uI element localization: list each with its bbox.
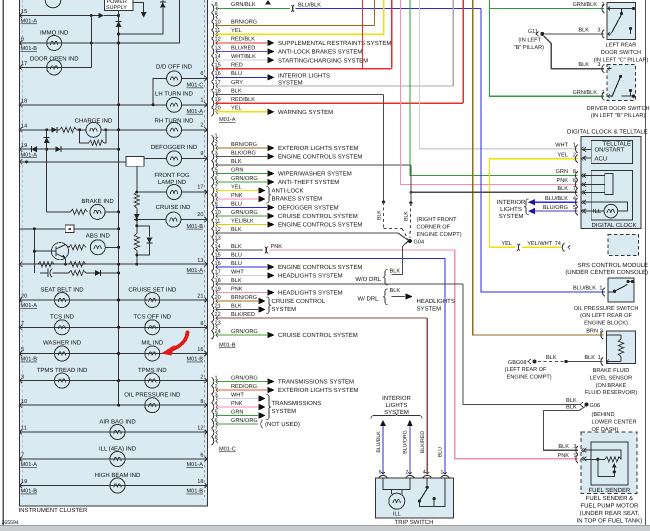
svg-text:LH TURN IND: LH TURN IND — [155, 90, 194, 97]
pin 14 left edge — [19, 127, 22, 132]
pin BLK 7 — [576, 188, 578, 196]
svg-text:YEL: YEL — [231, 184, 242, 190]
wire BLU/ORG interior lights arrow — [534, 210, 578, 212]
system arrow — [267, 378, 274, 385]
wire D/D OFF to right edge — [181, 77, 207, 79]
wire pin18 row / LH TURN — [19, 104, 167, 106]
svg-text:PNK: PNK — [231, 193, 243, 199]
svg-text:GRN: GRN — [231, 409, 243, 415]
pin 9 right edge — [205, 156, 208, 161]
wire BLK — [216, 249, 264, 251]
connector pin 15 — [212, 65, 214, 73]
svg-text:SYSTEM: SYSTEM — [499, 213, 524, 220]
ground G11 — [536, 32, 539, 37]
diode left-pointing pin19 row — [31, 146, 37, 152]
junction (118.6,34) — [117, 33, 120, 36]
small component box row 228.8 — [19, 228, 65, 230]
lamp MIL IND — [145, 346, 160, 361]
wire RED/BLK — [216, 102, 464, 104]
svg-text:SUPPLEMENTAL RESTRAINTS SYSTEM: SUPPLEMENTAL RESTRAINTS SYSTEM — [278, 40, 391, 47]
pin 15 (M01-A) left edge — [19, 13, 22, 18]
wire BLU/BLK pin8 continuation — [295, 7, 481, 9]
telltale sub-box — [591, 141, 632, 164]
svg-text:ANTI-LOCK BRAKES SYSTEM: ANTI-LOCK BRAKES SYSTEM — [278, 49, 362, 56]
pin 19 (M01-A) left edge — [19, 147, 22, 152]
svg-text:23: 23 — [215, 320, 221, 326]
pin 2 right edge — [205, 127, 208, 132]
pin BLU/BLK 4 — [576, 198, 578, 206]
wire WHT — [216, 275, 267, 277]
wire GRY vertical to top — [452, 0, 454, 86]
svg-text:GRN/BLK: GRN/BLK — [231, 1, 256, 8]
oil pressure switch box — [608, 278, 634, 302]
driver switch blade — [612, 76, 621, 97]
svg-text:BLU: BLU — [438, 447, 444, 457]
wire PNK pin14 continuation to fuel sender — [269, 250, 578, 459]
svg-text:7: 7 — [573, 186, 576, 192]
brace cruise control — [267, 297, 272, 314]
wire CRUISE to right edge — [181, 219, 208, 221]
connector pin 2 — [212, 144, 214, 152]
svg-text:9: 9 — [215, 201, 218, 207]
svg-text:(UNDER CENTER CONSOLE): (UNDER CENTER CONSOLE) — [565, 269, 648, 276]
svg-text:6: 6 — [573, 178, 576, 184]
svg-text:18: 18 — [197, 479, 203, 485]
wire BLK pin18(M01-B) to G06 — [463, 284, 580, 405]
svg-text:1: 1 — [215, 133, 218, 139]
wire charge row to bus — [101, 129, 119, 131]
svg-text:18: 18 — [215, 88, 221, 94]
branch arrow from power supply box — [133, 3, 144, 13]
svg-text:BLK: BLK — [231, 227, 242, 233]
left rear switch pins — [602, 4, 604, 12]
lamp TPMS TREAD IND — [55, 373, 70, 388]
splice pin14 — [265, 247, 268, 254]
svg-text:YEL: YEL — [501, 241, 512, 247]
wire FRONT FOG to right edge — [181, 191, 207, 193]
connector pin 12 — [212, 229, 214, 237]
lamp ILL (trip switch) — [389, 493, 405, 509]
fuel sender resistor — [605, 457, 621, 462]
connector pin 8 — [212, 195, 214, 203]
wire BLK G06 to fuel sender — [543, 407, 585, 451]
svg-text:M01-B: M01-B — [21, 489, 38, 495]
svg-text:INTERIOR: INTERIOR — [497, 199, 526, 206]
svg-text:3: 3 — [215, 150, 218, 156]
svg-text:BLU: BLU — [231, 261, 242, 267]
svg-text:CHARGE IND: CHARGE IND — [75, 117, 113, 124]
svg-text:18: 18 — [215, 278, 221, 284]
wire BLU/BLK interior lights arrow — [534, 201, 578, 203]
wire BLK/ORG — [216, 156, 267, 158]
svg-text:HEADLIGHTS SYSTEM: HEADLIGHTS SYSTEM — [278, 273, 343, 280]
dashed BLK pin4 to G04 — [409, 203, 412, 238]
wire FRONT FOG row — [137, 191, 167, 193]
wire YEL/BLK — [216, 224, 267, 226]
svg-text:GRN/BLK: GRN/BLK — [572, 89, 597, 96]
transistor collector to resistor — [66, 245, 69, 248]
wire DEFOGGER to right edge — [181, 157, 207, 159]
vertical from pin15 junction down — [90, 16, 92, 68]
wire BLK — [216, 309, 259, 311]
svg-text:LEFT REAR: LEFT REAR — [606, 43, 637, 49]
svg-text:6: 6 — [215, 176, 218, 182]
svg-text:11: 11 — [21, 426, 27, 432]
svg-text:GRN/ORG: GRN/ORG — [231, 209, 258, 216]
svg-text:4: 4 — [215, 401, 218, 407]
svg-text:G06: G06 — [590, 403, 601, 409]
svg-text:WHT: WHT — [231, 392, 244, 398]
fuel sender inner box — [591, 442, 628, 485]
svg-text:TRIP SWITCH: TRIP SWITCH — [395, 519, 434, 526]
svg-text:W/ DRL: W/ DRL — [358, 296, 380, 303]
SRS pin bracket — [562, 243, 564, 251]
lamp TCS OFF IND — [145, 320, 160, 335]
svg-text:BLK: BLK — [566, 405, 577, 411]
wire BLU — [216, 266, 267, 268]
junction (46.7,149.2) — [45, 148, 48, 151]
svg-text:8: 8 — [215, 2, 218, 8]
svg-text:(RIGHT FRONT: (RIGHT FRONT — [417, 216, 458, 223]
wire pin19 row — [19, 148, 118, 150]
wire BLU/RED — [216, 51, 267, 53]
junction (91.3,15.5) — [90, 14, 93, 17]
connector pin 13 — [212, 237, 214, 245]
system arrow — [267, 145, 274, 152]
svg-text:17: 17 — [215, 80, 221, 86]
system arrow — [267, 289, 274, 296]
svg-text:TRANSMISSIONS: TRANSMISSIONS — [272, 400, 322, 407]
svg-text:M01-B: M01-B — [219, 343, 236, 349]
svg-text:BLU/ORG: BLU/ORG — [403, 430, 409, 453]
svg-text:3: 3 — [215, 392, 218, 398]
svg-text:YEL/WHT: YEL/WHT — [527, 240, 552, 247]
svg-text:ENGINE CONTROLS SYSTEM: ENGINE CONTROLS SYSTEM — [278, 154, 362, 161]
svg-text:(NOT USED): (NOT USED) — [265, 421, 300, 428]
telltale ON/START arrow — [583, 148, 591, 150]
lamp ILL (4EA) IND — [110, 452, 125, 467]
connector pin 12 — [212, 39, 214, 47]
svg-text:7: 7 — [21, 321, 24, 327]
svg-text:4: 4 — [215, 159, 218, 165]
wire BLU — [216, 258, 445, 260]
svg-text:BLU/ORG: BLU/ORG — [543, 204, 568, 211]
svg-text:SRS CONTROL MODULE: SRS CONTROL MODULE — [578, 262, 648, 269]
wire GRN/ORG — [216, 334, 267, 336]
svg-text:CRUISE CONTROL: CRUISE CONTROL — [272, 298, 326, 305]
svg-text:CORNER OF: CORNER OF — [417, 224, 451, 230]
lamp BRAKE IND — [90, 204, 105, 219]
svg-text:12: 12 — [197, 426, 203, 432]
svg-text:7: 7 — [215, 184, 218, 190]
pin 6 (M01-C) right edge — [205, 76, 208, 81]
wire pin15 row — [19, 15, 98, 17]
svg-text:20: 20 — [215, 106, 221, 112]
connector pin 18 — [212, 280, 214, 288]
wire GRN — [216, 173, 267, 175]
lamp CRUISE SET IND — [145, 293, 160, 308]
svg-text:CRUISE IND: CRUISE IND — [156, 204, 191, 211]
row tcs — [19, 326, 207, 328]
brake fluid sensor resistor — [606, 334, 621, 336]
svg-text:SYSTEM: SYSTEM — [272, 306, 297, 313]
svg-text:2: 2 — [215, 142, 218, 148]
svg-text:5: 5 — [573, 205, 576, 211]
svg-text:22: 22 — [215, 312, 221, 318]
svg-text:1: 1 — [200, 97, 203, 103]
wire PNK — [216, 198, 259, 200]
system arrow — [267, 109, 274, 116]
svg-text:BLK/RED: BLK/RED — [231, 311, 255, 318]
svg-text:EXTERIOR LIGHTS SYSTEM: EXTERIOR LIGHTS SYSTEM — [278, 387, 358, 394]
resistor ABS row — [69, 245, 86, 250]
wire GRY — [216, 85, 454, 87]
svg-text:ANTI-THEFT SYSTEM: ANTI-THEFT SYSTEM — [278, 179, 339, 186]
svg-text:M01-A: M01-A — [187, 462, 204, 468]
brake fluid pin1 — [601, 357, 603, 365]
driver switch pins — [602, 65, 604, 73]
digital clock box — [581, 136, 641, 228]
svg-text:HEADLIGHTS SYSTEM: HEADLIGHTS SYSTEM — [278, 290, 343, 297]
svg-text:7: 7 — [21, 453, 24, 459]
diode right pin19 row — [55, 146, 61, 152]
left rear switch blade — [612, 14, 623, 34]
wire BRAKE row from x=46.7 vertical — [47, 211, 71, 213]
svg-text:19: 19 — [215, 286, 221, 292]
svg-text:3: 3 — [597, 28, 600, 34]
connector pin 7 — [212, 428, 214, 436]
wire BLU — [216, 76, 267, 78]
row oil pressure — [19, 404, 207, 406]
svg-text:(LEFT REAR OF: (LEFT REAR OF — [505, 366, 547, 373]
connector pin 20 — [212, 108, 214, 116]
svg-text:2: 2 — [200, 374, 203, 380]
page left border — [2, 0, 4, 527]
wire GRN/ORG — [216, 215, 267, 217]
wire DOOR OPEN row — [19, 66, 91, 68]
junction cruise row — [135, 218, 138, 221]
digital clock sub-box — [591, 171, 632, 221]
svg-text:BLK: BLK — [231, 278, 242, 284]
lamp FRONT FOG LAMP IND — [167, 185, 182, 200]
wire BRN/ORG vertical to top — [374, 0, 376, 26]
connector pin 17 — [212, 82, 214, 90]
wire BRN/ORG — [216, 25, 375, 27]
svg-text:INTERIOR LIGHTS: INTERIOR LIGHTS — [278, 72, 330, 79]
svg-text:20: 20 — [21, 294, 27, 300]
svg-text:4: 4 — [573, 196, 576, 202]
trip switch top pin brackets — [379, 475, 387, 477]
svg-text:G04: G04 — [414, 240, 425, 246]
svg-text:WHT/BLK: WHT/BLK — [231, 53, 256, 60]
svg-text:DOOR SWITCH: DOOR SWITCH — [601, 50, 641, 56]
svg-text:M01-B: M01-B — [187, 357, 204, 363]
system arrow — [267, 153, 274, 160]
connector pin 20 — [212, 297, 214, 305]
wire row to x=179.6 then up — [119, 0, 180, 43]
svg-text:PNK: PNK — [231, 401, 243, 407]
svg-text:12: 12 — [215, 37, 221, 43]
svg-text:PNK: PNK — [271, 244, 283, 250]
lamp ILL (digital clock) — [583, 210, 604, 212]
wire BLK clock pin7 — [411, 191, 578, 193]
lamp AIR BAG IND — [110, 425, 125, 440]
svg-text:7: 7 — [215, 426, 218, 432]
clock display rectangle — [605, 174, 613, 195]
diode pin14 row — [51, 127, 57, 133]
svg-text:EXTERIOR LIGHTS SYSTEM: EXTERIOR LIGHTS SYSTEM — [278, 145, 358, 152]
svg-text:265594: 265594 — [2, 520, 19, 526]
connector pin 11 — [212, 30, 214, 38]
svg-text:BLK: BLK — [377, 210, 383, 220]
capacitor row 272.9 — [40, 272, 48, 274]
row washer / mil — [19, 353, 207, 355]
connector pin 5 — [212, 169, 214, 177]
svg-text:YEL: YEL — [231, 28, 242, 34]
svg-text:D/D OFF IND: D/D OFF IND — [156, 63, 193, 70]
svg-text:13: 13 — [197, 258, 203, 264]
svg-text:9: 9 — [215, 11, 218, 17]
svg-text:11: 11 — [215, 28, 221, 34]
svg-text:BLK/RED: BLK/RED — [420, 431, 426, 453]
svg-text:18: 18 — [21, 99, 27, 105]
svg-text:(IN LEFT "C" PILLAR): (IN LEFT "C" PILLAR) — [594, 56, 649, 63]
svg-text:G11: G11 — [528, 29, 538, 35]
svg-text:21: 21 — [197, 294, 203, 300]
svg-text:15: 15 — [215, 63, 221, 69]
connector pin 8 — [212, 4, 214, 12]
svg-text:GRN/ORG: GRN/ORG — [231, 175, 258, 182]
wire BLK — [216, 283, 463, 285]
connector pin 13 — [212, 47, 214, 55]
connector pin 16 — [212, 73, 214, 81]
svg-text:BLK: BLK — [231, 88, 242, 94]
wire GRN — [216, 415, 259, 417]
svg-text:BLK: BLK — [584, 355, 595, 361]
connector pin 14 — [212, 246, 214, 254]
svg-text:8: 8 — [573, 169, 576, 175]
ground GBG08 — [528, 359, 531, 364]
junction (118.6,15.5) — [117, 14, 120, 17]
svg-text:1: 1 — [598, 355, 601, 361]
connector pin 17 — [212, 271, 214, 279]
power supply box — [105, 0, 134, 11]
trip switch pin1 wire — [419, 478, 445, 507]
connector pin 11 — [212, 220, 214, 228]
svg-text:10: 10 — [215, 19, 221, 25]
diode up on bus — [116, 22, 122, 28]
svg-text:LEVEL SENSOR: LEVEL SENSOR — [590, 375, 632, 381]
transistor Q — [51, 243, 68, 260]
connector pin 9 — [212, 13, 214, 21]
svg-text:21: 21 — [215, 303, 221, 309]
wire RED — [216, 68, 392, 70]
pin 6 (M01-B) left edge — [19, 41, 22, 46]
svg-text:M01-A: M01-A — [21, 303, 38, 309]
svg-text:DEFOGGER SYSTEM: DEFOGGER SYSTEM — [278, 205, 339, 212]
diode on pin15 row — [99, 13, 105, 19]
wire relay to DEFOGGER lamp — [144, 157, 167, 159]
svg-text:BLK: BLK — [231, 159, 242, 165]
wire BLK to GBG08 — [566, 361, 603, 363]
wire BLU pin15 down to trip switch pin1 — [444, 259, 446, 475]
svg-text:BLK: BLK — [404, 211, 410, 221]
svg-text:BRN: BRN — [586, 329, 598, 335]
wire RED/ORG — [216, 389, 267, 391]
resistor BRAKE row — [70, 209, 87, 214]
connector pin 16 — [212, 263, 214, 271]
wire RH TURN to right edge — [181, 129, 207, 131]
vertical x=46.7 with diode — [46, 130, 48, 212]
svg-text:FUEL SENDER: FUEL SENDER — [589, 487, 631, 494]
svg-text:PNK: PNK — [556, 178, 568, 184]
svg-text:BLU: BLU — [231, 71, 242, 77]
instrument cluster box — [19, 0, 207, 506]
lamp ABS IND — [90, 240, 105, 255]
svg-text:14: 14 — [215, 54, 221, 60]
connector pin 9 — [212, 203, 214, 211]
svg-text:BRAKE FLUID: BRAKE FLUID — [593, 368, 630, 374]
wire BRN vertical to brake fluid sensor — [473, 0, 604, 335]
svg-text:BRN/ORG: BRN/ORG — [231, 18, 257, 25]
lamp (cropped, top) — [45, 0, 61, 8]
svg-text:8: 8 — [200, 399, 203, 405]
row high beam — [19, 485, 207, 487]
svg-text:WHT: WHT — [555, 143, 568, 149]
svg-text:15: 15 — [215, 252, 221, 258]
svg-text:2: 2 — [200, 122, 203, 128]
svg-text:RED/BLK: RED/BLK — [231, 36, 255, 43]
svg-text:8: 8 — [200, 321, 203, 327]
wire WHT — [216, 398, 259, 400]
system arrow — [267, 40, 274, 47]
svg-text:(IN LEFT: (IN LEFT — [518, 37, 541, 44]
svg-text:RED: RED — [231, 63, 243, 69]
svg-text:19: 19 — [21, 479, 27, 485]
resistor row 272.9 — [69, 270, 86, 275]
svg-text:6: 6 — [215, 418, 218, 424]
wire BLK pin4(M01-B) to G04 — [410, 165, 412, 203]
svg-text:20: 20 — [215, 295, 221, 301]
svg-text:WARNING SYSTEM: WARNING SYSTEM — [278, 109, 333, 116]
splice connector pin8 — [291, 5, 294, 12]
connector pin 15 — [212, 254, 214, 262]
cluster inner dashed connector boundary right — [204, 0, 206, 497]
svg-text:5: 5 — [215, 167, 218, 173]
connector pin 19 — [212, 99, 214, 107]
svg-text:BLK: BLK — [566, 398, 577, 404]
svg-text:DEFOGGER IND: DEFOGGER IND — [151, 144, 198, 151]
svg-text:BLU: BLU — [231, 201, 242, 207]
wire BLU/BLK down to oil pressure switch — [481, 8, 605, 292]
wire RH TURN row — [119, 129, 167, 131]
wire PNK — [216, 406, 259, 408]
svg-text:14: 14 — [215, 244, 221, 250]
svg-text:ENGINE COMPT): ENGINE COMPT) — [507, 374, 552, 381]
svg-text:19: 19 — [215, 97, 221, 103]
svg-text:PNK: PNK — [557, 453, 569, 459]
pin 17 right edge — [205, 190, 208, 195]
arrow-pin and relay coil row — [19, 159, 22, 164]
svg-text:FRONT FOG: FRONT FOG — [154, 172, 190, 179]
svg-text:17: 17 — [197, 185, 203, 191]
svg-text:SYSTEM: SYSTEM — [272, 408, 297, 415]
svg-text:14: 14 — [21, 124, 27, 130]
connector pin 6 — [212, 178, 214, 186]
svg-text:OIL PRESSURE SWITCH: OIL PRESSURE SWITCH — [574, 306, 639, 312]
svg-text:GBG08: GBG08 — [508, 360, 527, 366]
junction LH TURN — [152, 103, 155, 106]
